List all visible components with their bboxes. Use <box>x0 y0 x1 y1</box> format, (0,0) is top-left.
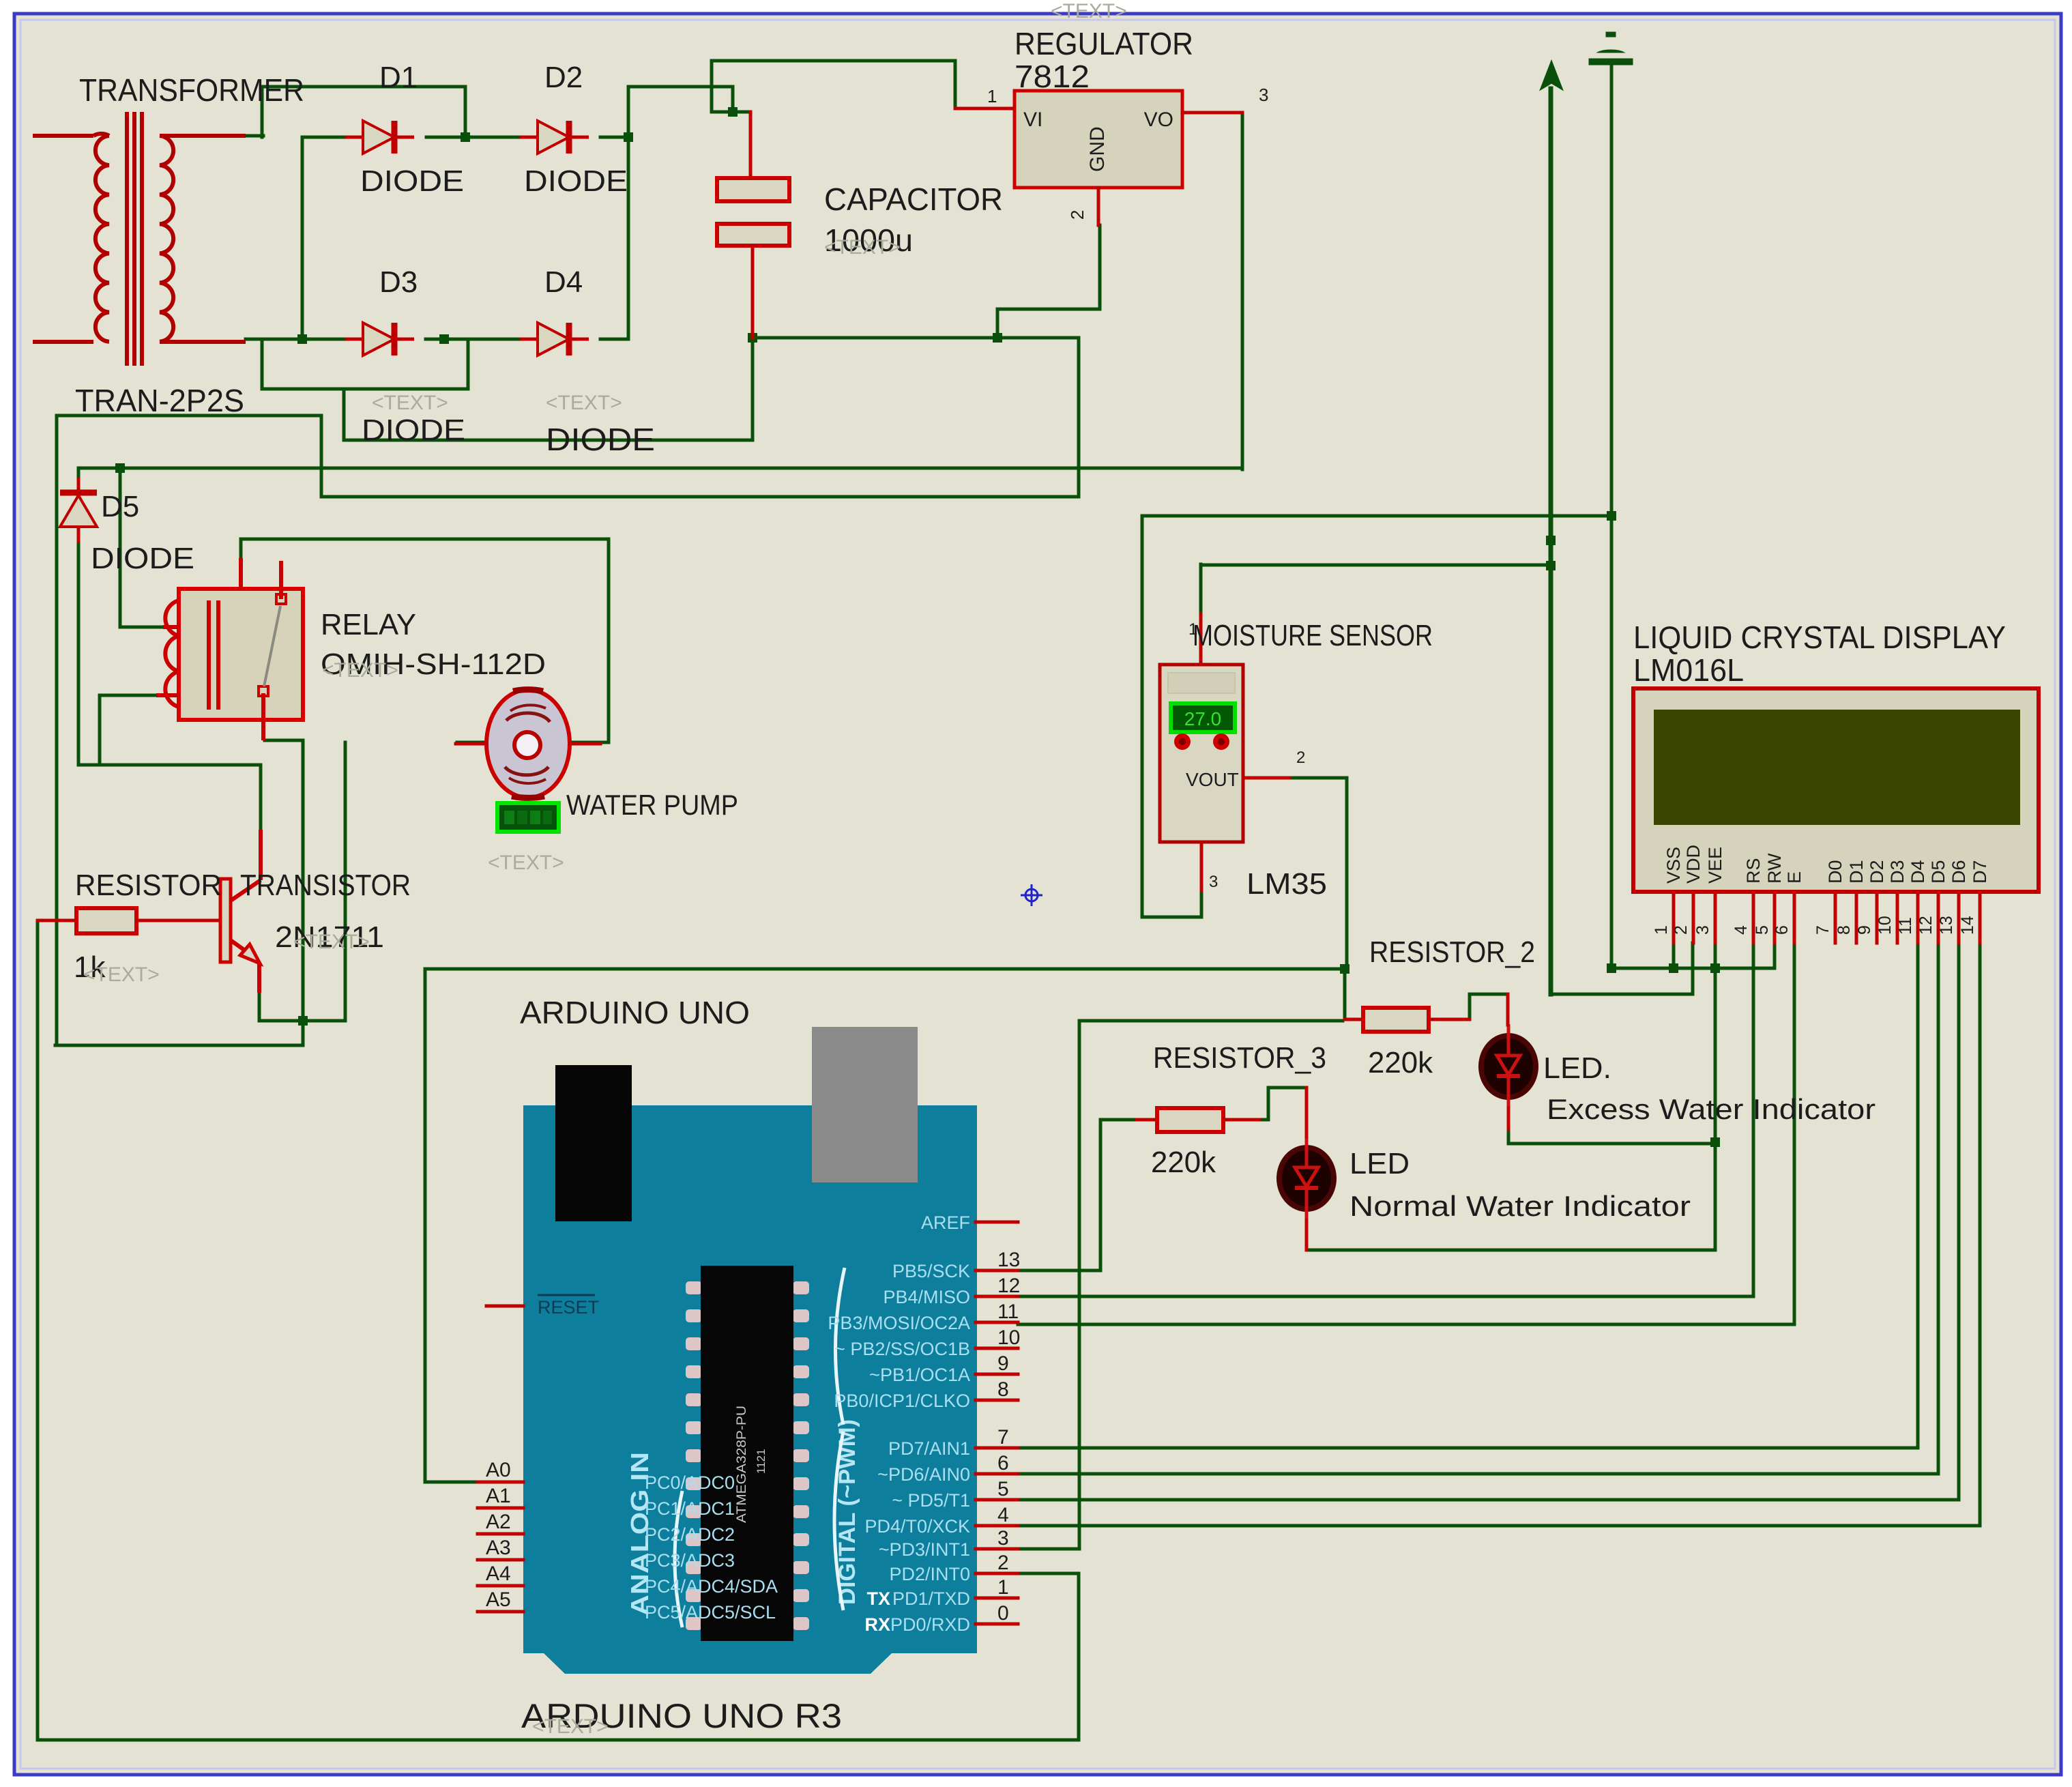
svg-text:~PD6/AIN0: ~PD6/AIN0 <box>877 1464 970 1485</box>
wire sensor ground to GND vertical <box>1142 514 1611 518</box>
svg-text:~ PD5/T1: ~ PD5/T1 <box>892 1490 970 1511</box>
svg-text:7: 7 <box>997 1426 1009 1449</box>
svg-text:<TEXT>: <TEXT> <box>532 1715 609 1738</box>
svg-text:LIQUID CRYSTAL DISPLAY: LIQUID CRYSTAL DISPLAY <box>1633 620 2006 655</box>
wire excess LED bottom red lead <box>1507 1108 1511 1129</box>
wire LCD D5 drop <box>1937 943 1940 1474</box>
node junction 11 <box>1546 561 1556 570</box>
wire capacitor top node <box>712 111 750 114</box>
wire relay coil top lead <box>120 626 163 629</box>
wire regulator GND jog <box>997 308 1100 311</box>
svg-text:14: 14 <box>1958 916 1977 935</box>
svg-text:<TEXT>: <TEXT> <box>824 236 901 259</box>
svg-text:RESISTOR: RESISTOR <box>75 869 222 902</box>
svg-text:PB0/ICP1/CLKO: PB0/ICP1/CLKO <box>834 1391 970 1411</box>
wire regulator VO drop <box>1241 113 1244 469</box>
svg-text:D1: D1 <box>1846 860 1867 884</box>
wire pin3 riser <box>1078 1021 1081 1549</box>
wire +12V to relay coil top <box>119 468 122 627</box>
svg-text:AREF: AREF <box>921 1212 970 1233</box>
svg-text:CAPACITOR: CAPACITOR <box>824 181 1003 217</box>
wire LCD VEE drop <box>1714 943 1717 1250</box>
svg-text:D4: D4 <box>544 265 583 299</box>
wire resistor2 left riser <box>1343 969 1347 1018</box>
wire regulator GND lead lower <box>1098 225 1102 309</box>
wire D2/D4 cathode vertical <box>627 87 630 339</box>
svg-text:LM35: LM35 <box>1246 867 1327 901</box>
wire D3 cathode to D4 anode <box>426 338 520 341</box>
wire arduino pin12 to RS <box>1018 1295 1753 1298</box>
svg-text:PB5/SCK: PB5/SCK <box>892 1261 970 1281</box>
wire VSS/RW ground link <box>1611 967 1775 970</box>
svg-text:<TEXT>: <TEXT> <box>546 392 622 414</box>
wire normal LED bottom red lead <box>1305 1220 1309 1250</box>
wire normal LED top red lead <box>1305 1088 1309 1137</box>
svg-text:1: 1 <box>987 86 997 106</box>
wire LCD VSS drop <box>1672 943 1676 968</box>
svg-text:RESISTOR_3: RESISTOR_3 <box>1153 1041 1326 1075</box>
svg-text:<TEXT>: <TEXT> <box>83 963 160 986</box>
wire drop to regulator VI pin <box>954 61 957 108</box>
wire excess LED cathode green part <box>1507 1128 1511 1144</box>
svg-text:0: 0 <box>997 1602 1009 1625</box>
svg-text:7812: 7812 <box>1015 59 1090 94</box>
node junction 15 <box>1669 963 1678 973</box>
node junction 7 <box>993 333 1002 343</box>
svg-text:13: 13 <box>1937 916 1956 935</box>
svg-text:PD0/RXD: PD0/RXD <box>890 1614 970 1635</box>
svg-text:PD2/INT0: PD2/INT0 <box>889 1564 970 1584</box>
svg-text:PC2/ADC2: PC2/ADC2 <box>645 1524 735 1545</box>
wire sensor left loop vertical <box>1141 516 1144 917</box>
wire excess LED bottom rail <box>1508 1142 1715 1146</box>
svg-text:DIODE: DIODE <box>524 164 628 198</box>
wire relay common jog <box>265 739 303 742</box>
svg-text:3: 3 <box>1259 85 1268 105</box>
svg-text:VDD: VDD <box>1683 845 1704 884</box>
wire pump right lead green <box>570 741 609 744</box>
svg-text:VEE: VEE <box>1705 847 1725 884</box>
wire power rail to LCD VDD <box>1551 993 1693 996</box>
arduino left analog pins <box>478 1481 523 1484</box>
svg-text:A5: A5 <box>486 1588 511 1611</box>
wire D1 cathode to D2 anode <box>426 136 520 139</box>
wire D5 anode down <box>77 541 81 765</box>
wire staple right riser <box>467 339 470 389</box>
svg-text:D0: D0 <box>1825 860 1845 884</box>
wire pin2 drop <box>1077 1573 1081 1740</box>
wire capacitor bottom riser <box>751 338 755 440</box>
svg-text:A4: A4 <box>486 1563 511 1585</box>
node junction 14 <box>1340 964 1349 974</box>
node junction 16 <box>1710 963 1720 973</box>
svg-text:2: 2 <box>997 1552 1009 1574</box>
wire resistor2 right riser <box>1468 994 1472 1019</box>
wire sensor pin3 green part <box>1200 889 1203 917</box>
svg-text:RW: RW <box>1764 853 1785 884</box>
svg-text:<TEXT>: <TEXT> <box>488 852 564 874</box>
arduino IC ATMEGA328P <box>686 1281 702 1294</box>
svg-text:<TEXT>: <TEXT> <box>293 931 370 953</box>
svg-text:A0: A0 <box>486 1459 511 1481</box>
wire staple left drop <box>261 339 264 389</box>
svg-text:DIODE: DIODE <box>91 542 194 575</box>
svg-text:1: 1 <box>1652 925 1671 935</box>
wire 0V jog at left <box>320 416 323 497</box>
svg-text:7: 7 <box>1813 925 1833 935</box>
svg-text:PD1/TXD: PD1/TXD <box>892 1588 970 1609</box>
svg-text:1: 1 <box>997 1576 1009 1599</box>
wire arduino pin4 to D7 <box>1018 1524 1980 1528</box>
wire transformer top lead to riser <box>246 134 263 138</box>
wire A0 lead <box>425 1481 478 1484</box>
svg-text:A3: A3 <box>486 1537 511 1559</box>
svg-text:D2: D2 <box>544 61 583 94</box>
node junction 2 <box>624 132 633 142</box>
svg-text:27.0: 27.0 <box>1184 708 1222 729</box>
power symbol +V arrow <box>1541 62 1562 89</box>
wire arduino pin2 lead <box>1018 1572 1079 1575</box>
svg-text:LED.: LED. <box>1543 1051 1611 1085</box>
wire pin3 to resistor2 <box>1079 1019 1343 1023</box>
wire LCD RS drop <box>1752 943 1755 1296</box>
svg-text:A1: A1 <box>486 1485 511 1507</box>
node junction 10 <box>1546 536 1556 545</box>
wire regulator GND drop <box>996 309 999 338</box>
capacitor C1 1000u <box>749 112 753 178</box>
wire drop to capacitor top node <box>731 87 735 112</box>
wire arduino pin3 lead <box>1018 1548 1079 1551</box>
svg-text:PC3/ADC3: PC3/ADC3 <box>645 1550 735 1571</box>
wire resistor3 right green <box>1259 1118 1268 1122</box>
svg-text:12: 12 <box>1916 916 1936 935</box>
wire A0 riser <box>424 969 427 1482</box>
wire arduino pin6 to D5 <box>1018 1472 1938 1476</box>
diode D2 <box>520 121 589 154</box>
svg-text:11: 11 <box>1896 917 1915 935</box>
wire D5 to collector rail <box>78 764 261 767</box>
svg-text:<TEXT>: <TEXT> <box>1051 0 1127 23</box>
arduino board outline <box>523 1105 977 1674</box>
svg-text:ARDUINO UNO: ARDUINO UNO <box>520 995 750 1030</box>
svg-text:9: 9 <box>997 1352 1009 1375</box>
svg-text:3: 3 <box>1693 925 1712 935</box>
svg-text:RX: RX <box>864 1614 890 1635</box>
wire D2 cathode side <box>600 136 628 139</box>
node junction 3 <box>297 334 307 344</box>
svg-text:10: 10 <box>1876 916 1895 935</box>
svg-text:D3: D3 <box>1887 860 1908 884</box>
marker origin crosshair <box>1021 884 1042 906</box>
wire resistor3 left green <box>1100 1118 1137 1122</box>
svg-text:5: 5 <box>1753 925 1772 935</box>
svg-text:RESISTOR_2: RESISTOR_2 <box>1369 935 1535 969</box>
wire D1 anode side <box>302 136 345 139</box>
wire +12V rail across <box>78 467 1242 470</box>
wire drop to D1 cathode node <box>464 87 467 137</box>
svg-text:D3: D3 <box>379 265 418 299</box>
svg-text:DIODE: DIODE <box>360 164 464 198</box>
svg-text:D4: D4 <box>1908 860 1928 884</box>
svg-text:Normal Water Indicator: Normal Water Indicator <box>1349 1190 1691 1222</box>
wire jog to normal LED top <box>1268 1086 1307 1090</box>
wire 0V left rail down <box>55 416 59 1045</box>
svg-text:4: 4 <box>997 1504 1009 1526</box>
wire left rail pin2 net <box>36 920 40 1740</box>
arduino USB connector <box>812 1027 918 1182</box>
svg-text:13: 13 <box>997 1249 1020 1271</box>
svg-text:PC0/ADC0: PC0/ADC0 <box>645 1472 735 1493</box>
wire LCD D4 drop <box>1916 943 1920 1448</box>
arduino right pins <box>976 1221 1018 1224</box>
wire LCD E drop <box>1793 943 1796 1324</box>
svg-text:6: 6 <box>997 1452 1009 1474</box>
wire 0V rail under bridge <box>344 439 753 442</box>
wire relay coil bottom drop <box>98 695 102 765</box>
svg-text:D5: D5 <box>1928 860 1949 884</box>
wire arduino pin11 to E <box>1018 1323 1794 1326</box>
wire 0V rail under TRAN-2P2S <box>57 414 321 418</box>
LED D6 normal water <box>1279 1136 1334 1221</box>
wire pump left lead green <box>457 741 486 744</box>
LED D7 excess water <box>1481 1024 1536 1109</box>
svg-text:PD7/AIN1: PD7/AIN1 <box>888 1438 970 1459</box>
svg-text:RESET: RESET <box>538 1297 599 1318</box>
svg-text:TRANSISTOR: TRANSISTOR <box>240 869 411 902</box>
svg-text:6: 6 <box>1772 925 1792 935</box>
wire VOUT to A0 horizontal <box>425 968 1345 971</box>
wire LCD D7 drop <box>1979 943 1982 1526</box>
svg-text:A2: A2 <box>486 1511 511 1533</box>
motor water pump <box>486 690 570 798</box>
wire D2 node to capacitor top <box>628 85 733 89</box>
resistor R1 1k <box>38 919 76 922</box>
svg-text:VO: VO <box>1144 108 1173 131</box>
wire 0V rail to emitter node <box>55 1044 303 1047</box>
svg-text:D7: D7 <box>1970 860 1990 884</box>
wire pump to relay pin rail <box>241 538 609 541</box>
wire relay pin riser <box>239 539 243 560</box>
wire VOUT lead green <box>1287 776 1347 780</box>
svg-text:~PD3/INT1: ~PD3/INT1 <box>879 1539 970 1560</box>
wire top rail to D1/D2 node <box>262 85 465 89</box>
wire emitter to pump node <box>259 1019 345 1023</box>
wire +12V to D5 cathode <box>77 468 81 479</box>
svg-text:REGULATOR: REGULATOR <box>1015 26 1193 61</box>
wire drop to 0V rail <box>342 389 346 440</box>
wire VOUT drop <box>1345 778 1349 969</box>
arduino power jack <box>555 1065 632 1221</box>
wire sensor pin3 bottom lead <box>1142 916 1201 919</box>
regulator U1 7812 <box>1015 91 1182 188</box>
svg-text:4: 4 <box>1732 925 1751 935</box>
wire 0V rail drop right <box>1077 338 1081 497</box>
svg-text:3: 3 <box>997 1527 1009 1550</box>
svg-text:11: 11 <box>997 1301 1019 1323</box>
wire emitter drop <box>258 991 261 1021</box>
svg-text:PB4/MISO: PB4/MISO <box>883 1287 970 1307</box>
svg-text:D5: D5 <box>101 490 139 523</box>
svg-text:220k: 220k <box>1368 1046 1433 1079</box>
svg-text:3: 3 <box>1209 873 1218 891</box>
wire 0V rail to regulator area <box>753 336 1079 340</box>
svg-text:~PB1/OC1A: ~PB1/OC1A <box>869 1365 970 1385</box>
wire 0V rail return left <box>321 495 1079 499</box>
svg-text:PD4/T0/XCK: PD4/T0/XCK <box>864 1516 970 1537</box>
wire collector riser <box>259 765 263 830</box>
node junction 18 <box>1710 1137 1720 1147</box>
svg-text:RELAY: RELAY <box>321 608 416 641</box>
node junction 8 <box>115 463 125 473</box>
diode D3 <box>345 323 414 355</box>
svg-text:ATMEGA328P-PU: ATMEGA328P-PU <box>735 1406 749 1523</box>
display pump indicator <box>497 803 559 832</box>
wire arduino pin13 lead <box>1018 1269 1100 1273</box>
svg-text:~ PB2/SS/OC1B: ~ PB2/SS/OC1B <box>834 1339 970 1359</box>
svg-text:D2: D2 <box>1867 860 1887 884</box>
relay RL1 OMIH-SH-112D <box>179 589 303 720</box>
node junction 6 <box>748 333 757 343</box>
svg-text:PC4/ADC4/SDA: PC4/ADC4/SDA <box>645 1576 778 1597</box>
svg-text:10: 10 <box>997 1326 1020 1349</box>
wire sensor pin1 to power rail <box>1201 564 1551 567</box>
ground symbol <box>1589 32 1633 65</box>
svg-text:2: 2 <box>1672 925 1691 935</box>
node junction 9 <box>298 1016 308 1026</box>
svg-text:RS: RS <box>1743 858 1764 884</box>
svg-text:TX: TX <box>866 1588 890 1609</box>
svg-text:2: 2 <box>1296 749 1305 767</box>
svg-text:D1: D1 <box>379 61 418 94</box>
wire LCD VDD drop <box>1691 943 1695 994</box>
svg-text:8: 8 <box>997 1378 1009 1401</box>
svg-text:PC1/ADC1: PC1/ADC1 <box>645 1498 735 1519</box>
wire resistor3 to LED jog up <box>1267 1088 1270 1120</box>
wire power rail vertical <box>1549 89 1553 994</box>
wire pump right riser <box>607 539 611 742</box>
svg-text:GND: GND <box>1086 126 1109 172</box>
node junction 12 <box>1607 511 1616 521</box>
arduino RESET pin <box>486 1305 523 1308</box>
wire pin13 riser <box>1099 1120 1103 1270</box>
wire transformer bottom to D3 anode <box>246 338 345 341</box>
svg-text:D6: D6 <box>1949 860 1969 884</box>
svg-text:VI: VI <box>1023 108 1042 131</box>
wire excess LED top red lead <box>1506 994 1510 1025</box>
svg-text:Excess Water Indicator: Excess Water Indicator <box>1547 1093 1876 1125</box>
svg-text:WATER PUMP: WATER PUMP <box>566 789 738 821</box>
svg-text:PB3/MOSI/OC2A: PB3/MOSI/OC2A <box>828 1313 970 1333</box>
svg-text:5: 5 <box>997 1478 1009 1500</box>
wire transistor base green segment <box>179 919 205 922</box>
svg-text:2: 2 <box>1067 210 1088 220</box>
wire normal LED bottom rail <box>1307 1249 1715 1252</box>
wire LCD RW drop <box>1773 943 1777 968</box>
wire relay common drop <box>302 740 305 1021</box>
resistor R2 220k <box>1345 1018 1363 1021</box>
wire D1 anode to D3 anode vertical <box>301 137 304 339</box>
svg-text:1121: 1121 <box>755 1449 768 1474</box>
transistor Q1 2N1711 <box>220 830 261 993</box>
wire emitter node drop <box>302 1021 305 1045</box>
svg-text:8: 8 <box>1835 925 1854 935</box>
wire staple bottom <box>262 388 468 391</box>
wire relay coil bottom lead <box>100 694 156 697</box>
resistor R3 220k <box>1137 1118 1157 1122</box>
svg-text:E: E <box>1784 871 1805 884</box>
svg-text:TRAN-2P2S: TRAN-2P2S <box>75 383 244 418</box>
svg-text:<TEXT>: <TEXT> <box>372 392 448 414</box>
svg-text:MOISTURE SENSOR: MOISTURE SENSOR <box>1193 619 1433 652</box>
sensor LM35 moisture <box>1160 665 1243 842</box>
node junction 4 <box>439 334 449 344</box>
wire +5V VDD rail <box>1470 993 1508 996</box>
wire pump left drop <box>344 742 347 1021</box>
svg-text:9: 9 <box>1855 925 1874 935</box>
svg-text:LED: LED <box>1349 1147 1410 1180</box>
diode D1 <box>345 121 414 154</box>
wire top rail to regulator VI <box>712 59 955 63</box>
svg-text:TRANSFORMER: TRANSFORMER <box>79 72 304 108</box>
wire riser at transformer top <box>261 87 264 137</box>
svg-text:DIODE: DIODE <box>362 413 465 447</box>
svg-text:LM016L: LM016L <box>1633 652 1744 688</box>
svg-text:<TEXT>: <TEXT> <box>322 659 398 682</box>
wire ground rail vertical <box>1610 65 1614 968</box>
wire LCD D6 drop <box>1957 943 1961 1500</box>
svg-text:VOUT: VOUT <box>1186 769 1239 790</box>
svg-text:VSS: VSS <box>1663 847 1684 884</box>
wire sensor pin1 green part <box>1199 564 1203 614</box>
arduino bracket marks <box>675 1491 682 1627</box>
transformer TR1 TRAN-2P2S <box>33 112 246 366</box>
svg-text:12: 12 <box>997 1275 1020 1297</box>
node junction 5 <box>728 107 738 117</box>
wire arduino pin7 to D4 <box>1018 1447 1918 1450</box>
wire arduino pin5 to D6 <box>1018 1498 1959 1502</box>
node junction 17 <box>1607 963 1616 973</box>
diode D4 <box>520 323 589 355</box>
wire bottom rail pin2 net <box>38 1739 1079 1742</box>
svg-text:PC5/ADC5/SCL: PC5/ADC5/SCL <box>645 1602 776 1623</box>
svg-text:220k: 220k <box>1151 1146 1216 1179</box>
wire D4 cathode side <box>600 338 628 341</box>
node junction 1 <box>461 132 470 142</box>
svg-text:DIODE: DIODE <box>546 422 655 457</box>
LCD LCD1 LM016L <box>1633 688 2039 892</box>
diode D5 <box>60 478 97 542</box>
wire riser to regulator input rail <box>710 61 714 112</box>
